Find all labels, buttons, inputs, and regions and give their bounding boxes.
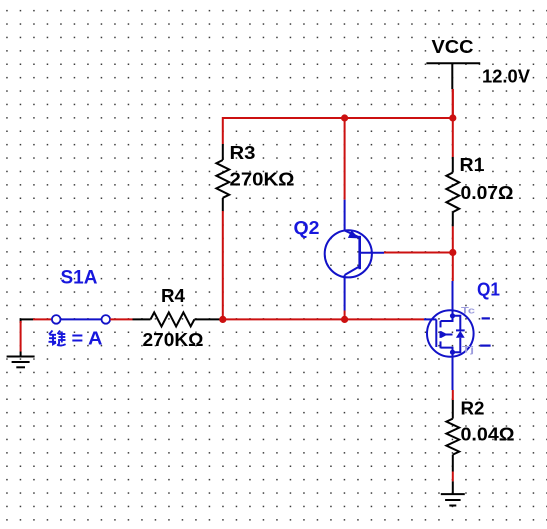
pin Tj dash <box>480 345 491 347</box>
ground (left) <box>7 319 35 367</box>
resistor R3 <box>216 144 229 211</box>
transistor Q1 body arrow <box>442 331 448 337</box>
transistor Q1 body diode triangle <box>456 331 465 338</box>
transistor Q1 (NMOS with body diode) <box>424 281 474 390</box>
wire R3 bottom to input rail <box>222 211 224 319</box>
svg-text:Tc: Tc <box>461 306 475 317</box>
node Q1 drain dot <box>450 313 455 318</box>
pin Tc dash <box>482 317 490 319</box>
svg-text:270KΩ: 270KΩ <box>230 170 295 190</box>
wire R1 bottom to Q1 drain <box>452 226 454 281</box>
svg-text:12.0V: 12.0V <box>482 67 530 87</box>
svg-text:Q1: Q1 <box>477 280 500 300</box>
node junction R1 / Q2 base <box>449 249 456 256</box>
resistor R2 <box>446 400 459 472</box>
label 键 = A <box>49 331 66 346</box>
resistor R4 <box>133 312 222 326</box>
svg-text:R4: R4 <box>161 286 185 306</box>
node junction top rail / Q2 emitter <box>341 114 348 121</box>
svg-text:R1: R1 <box>460 155 485 175</box>
wire VCC rail upper segment <box>452 89 454 157</box>
svg-text:Q2: Q2 <box>294 218 320 238</box>
wire ground riser (left) <box>20 321 22 352</box>
wire switch to R4 <box>110 318 132 320</box>
wire R2 to ground <box>452 472 454 482</box>
svg-text:= A: = A <box>72 327 103 348</box>
svg-text:0.07Ω: 0.07Ω <box>461 183 514 203</box>
node junction R4 / R3 <box>219 316 226 323</box>
wire Q1 source to R2 <box>452 390 454 400</box>
wire top rail to Q2 emitter <box>344 118 346 200</box>
transistor Q2 emitter arrow <box>348 230 359 238</box>
node Q1 source dot <box>450 350 455 355</box>
node junction input rail / Q2 collector <box>341 316 348 323</box>
svg-text:0.04Ω: 0.04Ω <box>461 425 515 445</box>
svg-text:S1A: S1A <box>61 268 98 289</box>
resistor R1 <box>446 157 459 227</box>
svg-text:270KΩ: 270KΩ <box>143 330 204 350</box>
node junction top rail / VCC <box>449 114 456 121</box>
wire Q2 collector down to input rail <box>344 311 346 320</box>
wire top rail horizontal <box>223 118 453 144</box>
wire ground to switch <box>33 318 52 320</box>
wire Q2 base to R1 node <box>384 252 453 254</box>
transistor Q2 (PNP) <box>325 200 384 311</box>
switch S1A <box>52 315 110 324</box>
svg-text:R2: R2 <box>461 399 485 419</box>
svg-text:R3: R3 <box>230 143 256 163</box>
svg-text:Tj: Tj <box>462 345 474 356</box>
svg-text:VCC: VCC <box>432 37 474 57</box>
wire VCC to top rail <box>452 89 454 118</box>
wire input rail to Q1 gate <box>223 318 424 320</box>
power symbol VCC <box>426 63 480 89</box>
ground (right) <box>441 481 465 505</box>
